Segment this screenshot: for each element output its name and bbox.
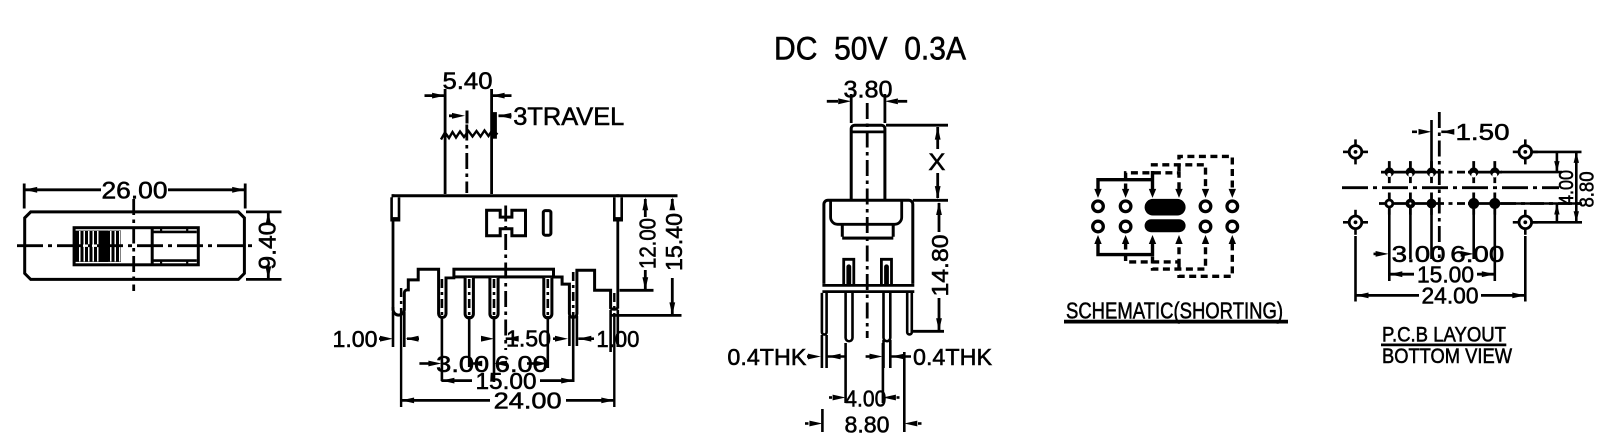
central base plate [454, 269, 554, 277]
dim 9.40 extension line top [246, 210, 282, 213]
svg-text:1.50: 1.50 [506, 326, 551, 352]
small slot hole [543, 211, 551, 236]
slider body top inset line [152, 231, 197, 234]
top arrow at 1 [1094, 189, 1101, 198]
pcb row2 pad 5 [1489, 198, 1500, 209]
schematic top shorting pill [1145, 199, 1186, 216]
front body top edge (extends right as extension line) [392, 194, 678, 197]
schematic bottom row circle 1 [1093, 221, 1104, 232]
dim row2: 3.00 and 6.00 [469, 361, 482, 367]
leg4 [907, 293, 912, 335]
pcb col tick row1 x=1431.5 [1430, 161, 1433, 183]
slider knob hatched block [75, 231, 121, 262]
dim 8.80 arrows [805, 422, 809, 425]
top view horizontal centerline [17, 244, 255, 247]
bottom arrow at pill-right [1175, 235, 1182, 244]
dim 26.00 extension line right [244, 184, 247, 209]
top view body outline (chamfered rectangle) [25, 212, 245, 280]
leg2 [846, 293, 853, 341]
slider body divider line [151, 228, 154, 265]
bottom arrow at 1 [1094, 235, 1101, 244]
dim 1.50: col3 upper ext [1430, 120, 1433, 168]
dim 8.80 vertical (mount rows) [1575, 152, 1578, 222]
pcb col tick row2 x=1410.4 [1409, 193, 1412, 215]
left corner slit [390, 197, 400, 221]
pin5 edge extension lines [568, 316, 571, 346]
svg-text:8.80: 8.80 [1577, 172, 1599, 208]
dim row1: 1.50 [481, 337, 483, 340]
mount hole top-right [1513, 139, 1538, 164]
H-shaped hole [487, 210, 526, 236]
pin2 [465, 278, 473, 318]
knob solid black band [99, 231, 109, 262]
svg-text:14.80: 14.80 [927, 235, 953, 297]
dim 9.40 line [267, 212, 270, 220]
right leg centerline ext (24.00) [613, 293, 615, 316]
dashed wire bottom: pill-left to pos4 [1153, 243, 1206, 270]
top arrow at pill-left [1149, 189, 1156, 198]
side body top edge extension right [913, 199, 948, 202]
left terminal slot [844, 259, 854, 285]
knob centerline (dash-dot) [465, 125, 468, 194]
top arrow at 2 [1122, 189, 1129, 198]
pcb row2 pad 3 [1427, 199, 1437, 209]
dim row4: 24.00 [401, 399, 490, 402]
svg-text:0.4THK: 0.4THK [727, 344, 807, 370]
pcb col tick row2 x=1431.5 [1430, 193, 1433, 215]
svg-text:BOTTOM VIEW: BOTTOM VIEW [1382, 345, 1512, 368]
bottom outline right: step + pin5 + castle tab + right leg [552, 270, 618, 317]
dim 3.80 extension lines [850, 94, 853, 123]
dim 12.00 vertical + arrows [644, 199, 647, 217]
side body bottom edge line2 [822, 290, 914, 293]
dashed wire bottom: pill-right to pos5 [1179, 243, 1232, 277]
pcb row1 pad 4 [1469, 167, 1478, 176]
schematic bottom shorting pill [1145, 219, 1186, 232]
svg-text:4.00: 4.00 [845, 386, 886, 412]
pcb row2 pad 4 [1468, 198, 1479, 209]
dim 3.80 arrows [827, 100, 838, 103]
pcb col tick row1 x=1389.3 [1388, 161, 1391, 183]
svg-text:4.00: 4.00 [1556, 170, 1578, 205]
pcb vertical centerline [1438, 112, 1441, 258]
leg3 [884, 293, 891, 341]
dim 14.80 ext line bottom [913, 330, 944, 333]
top arrow at 4 [1202, 189, 1209, 198]
dim 15.40 ext line bottom [611, 314, 682, 317]
pcb row1 pad 2 [1406, 167, 1415, 176]
pcb col tick row2 x=1494.8 [1493, 193, 1496, 215]
pcb row1 pad 5 [1490, 167, 1499, 176]
pcb label underline [1381, 343, 1506, 346]
pcb row1 pad 1 [1385, 167, 1394, 176]
solid wire top: pos1 to pill-left [1098, 180, 1153, 191]
mount hole bottom-left [1343, 210, 1368, 235]
pcb middle horizontal centerline [1342, 186, 1559, 189]
schematic bottom row circle 5 [1227, 221, 1238, 232]
schematic top row circle 4 [1200, 201, 1211, 212]
dim 1.50 arrows [1412, 131, 1417, 134]
pin4 [544, 278, 552, 318]
knob hatch white lines [80, 231, 120, 262]
pcb bottom ext lines cols [1388, 214, 1391, 281]
dim X vertical + arrows [936, 127, 939, 149]
slider outer rectangle [74, 228, 198, 265]
dim 12.00 ext line [620, 289, 654, 292]
svg-text:X: X [928, 149, 945, 176]
schematic label underline [1064, 320, 1288, 324]
knob white center strip [75, 244, 121, 246]
dim X ext line (knob top) [886, 124, 948, 127]
right slot leg bar [884, 264, 889, 285]
travel arrow right [499, 114, 512, 117]
svg-text:1.00: 1.00 [596, 326, 639, 352]
travel arrow left [449, 114, 455, 117]
side knob centerline [866, 103, 869, 338]
dashed wire top: pill-right to pos5 [1179, 156, 1232, 190]
dim 14.80 vertical + arrows [938, 203, 941, 232]
pcb dim 3.00 [1374, 253, 1377, 256]
front body left edge [392, 194, 395, 309]
dim row1: 1.00 right [553, 337, 556, 340]
dim 5.40 line + arrows [425, 94, 446, 97]
pcb row1 pad 3 [1427, 167, 1436, 176]
solid wire bottom: pos1 to pill-left [1098, 243, 1153, 255]
svg-text:DC 50V 0.3A: DC 50V 0.3A [774, 30, 967, 66]
svg-text:24.00: 24.00 [1422, 283, 1479, 309]
left leg centerline ext (24.00) [400, 288, 402, 316]
pcb row1 centerline [1381, 171, 1436, 174]
pcb right ext lines [1532, 151, 1582, 154]
pcb row2 centerline [1379, 202, 1436, 205]
dashed wire top: pill-left to pos4 [1153, 165, 1206, 191]
top view vertical centerline [132, 199, 135, 291]
pin1 centerline [441, 279, 444, 316]
dim 26.00 line [24, 188, 101, 191]
dim 8.80 ext lines [821, 409, 824, 432]
travel thick bar [493, 112, 497, 139]
pcb col tick row2 x=1473.7 [1472, 193, 1475, 215]
knob base block in cavity [842, 223, 893, 238]
right corner slit [613, 197, 623, 221]
svg-text:1.50: 1.50 [1456, 119, 1510, 145]
dim 4.00 arrows [829, 396, 832, 399]
knob break zigzag line [441, 130, 498, 140]
bottom arrow at 5 [1229, 235, 1236, 244]
svg-text:8.80: 8.80 [845, 412, 890, 437]
dim 4.00 ext lines [844, 343, 847, 403]
svg-text:1.00: 1.00 [333, 326, 378, 352]
right leg edge extension lines [609, 310, 612, 352]
side body inner cavity [831, 202, 902, 225]
dim 9.40 extension line bottom [246, 278, 282, 281]
right terminal slot [881, 259, 891, 285]
bottom arrow at 2 [1122, 235, 1129, 244]
svg-text:P.C.B LAYOUT: P.C.B LAYOUT [1382, 324, 1506, 347]
front body vertical centerline [504, 206, 507, 351]
slider body notch ticks [160, 228, 162, 232]
dim 15.40 vertical + arrows [671, 199, 674, 207]
pin4 centerline [546, 279, 549, 316]
pcb bottom ext lines mount cols [1354, 236, 1357, 302]
pin5 centerline [572, 272, 575, 318]
pin3 [490, 278, 498, 318]
dim 4.00 vertical (rows) [1556, 152, 1559, 172]
dashed wire top: pos2 to pill-right [1126, 173, 1179, 191]
svg-text:12.00: 12.00 [635, 218, 661, 269]
0.4THK right arrows + leg3 ext [882, 340, 885, 368]
svg-text:0.4THK: 0.4THK [913, 344, 993, 370]
bottom edge segment pin1-to-plate [445, 276, 456, 279]
svg-text:3TRAVEL: 3TRAVEL [513, 103, 624, 131]
left leg edge extension lines [392, 312, 395, 347]
pcb row2 pad 2 [1406, 199, 1416, 209]
svg-text:15.40: 15.40 [661, 213, 687, 271]
mount hole bottom-right [1513, 210, 1538, 235]
schematic top row circle 2 [1120, 201, 1131, 212]
svg-text:5.40: 5.40 [443, 68, 493, 95]
bottom arrow at pill-left [1149, 235, 1156, 244]
leg1 [822, 293, 827, 335]
pin3 centerline [493, 279, 496, 316]
pcb col tick row1 x=1494.8 [1493, 161, 1496, 183]
pin2 centerline [468, 279, 471, 316]
pcb col tick row1 x=1473.7 [1472, 161, 1475, 183]
svg-text:24.00: 24.00 [494, 388, 562, 414]
svg-text:9.40: 9.40 [254, 222, 281, 270]
bottom arrow at 4 [1202, 235, 1209, 244]
bottom outline left: leg + steps + castle tab (joins pin1 left) [393, 269, 446, 317]
side body outline [824, 200, 913, 284]
side knob inner line [851, 130, 885, 133]
travel center tick [466, 111, 469, 124]
pcb dim 24.00 [1356, 294, 1420, 297]
schematic top row circle 1 [1093, 201, 1104, 212]
schematic top row circle 5 [1227, 201, 1238, 212]
pcb col tick row2 x=1389.3 [1388, 193, 1391, 215]
dashed wire bottom: pos2 to pill-right [1126, 243, 1179, 262]
pcb row2 pad 1 [1384, 199, 1394, 209]
side body bottom edge line1 [822, 284, 914, 287]
schematic bottom row circle 2 [1120, 221, 1131, 232]
pcb col tick row1 x=1410.4 [1409, 161, 1412, 183]
slider body bottom inset line [152, 259, 197, 262]
0.4THK left arrows + leg1 ext [821, 335, 824, 368]
dim 26.00 extension line left [23, 184, 26, 209]
pcb dim 15.00 [1389, 273, 1414, 276]
front view knob right side line [490, 89, 493, 194]
schematic bottom row circle 4 [1200, 221, 1211, 232]
pin1 bottom arc [439, 278, 446, 318]
top arrow at pill-right [1175, 189, 1182, 198]
front body right edge [616, 194, 619, 308]
side knob outline (rounded top) [851, 125, 885, 200]
top arrow at 5 [1229, 189, 1236, 198]
front view knob left side line [444, 89, 447, 194]
dim row3: 15.00 [441, 379, 472, 382]
left slot leg bar [846, 264, 851, 285]
mount hole top-left [1343, 139, 1368, 164]
